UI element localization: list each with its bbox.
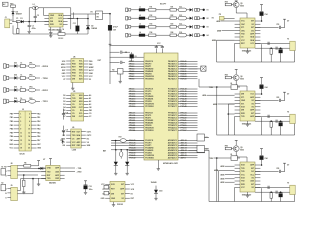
- mcu pin R2 PA1: [178, 63, 198, 65]
- mcu pin L28 PG3: [129, 147, 145, 149]
- feed wires U9: [225, 165, 235, 167]
- svg-text:A1: A1: [89, 97, 91, 100]
- mcu pin R30 AD5: [178, 152, 198, 154]
- wire vcc rail down: [109, 14, 111, 47]
- mcu pin R26 AD1: [178, 142, 198, 144]
- svg-text:D23: D23: [14, 87, 17, 89]
- svg-text:IN-OPT: IN-OPT: [160, 4, 167, 6]
- svg-text:R23: R23: [171, 24, 174, 26]
- cap C54 electrolytic: [260, 4, 263, 6]
- svg-text:D21: D21: [14, 63, 17, 65]
- wire eleft 1: [9, 65, 15, 67]
- rail risers U9: [294, 195, 296, 202]
- mcu pin R21 PF4: [178, 122, 198, 124]
- led LED4: [25, 100, 28, 102]
- connector J10 right of mcu: [201, 66, 206, 71]
- svg-text:PA4: PA4: [37, 128, 40, 131]
- wire row 4 b: [145, 34, 149, 36]
- feed wires U6: [207, 94, 235, 96]
- svg-text:OC1: OC1: [250, 94, 254, 96]
- svg-text:→TXD0: →TXD0: [41, 78, 49, 80]
- connector J8: [11, 165, 18, 178]
- wire crystal a: [255, 115, 290, 117]
- vcc arrow U6 top: [235, 69, 238, 71]
- title block T1: [3, 2, 9, 6]
- svg-text:PW: PW: [96, 13, 99, 15]
- capacitor C6 electrolytic: [130, 55, 134, 58]
- wire output right rail: [70, 8, 72, 29]
- svg-text:10: 10: [28, 129, 30, 131]
- terminal caps row 4: [195, 34, 197, 37]
- svg-text:OP2: OP2: [29, 75, 32, 77]
- ground U9: [247, 192, 249, 194]
- resistor R54: [270, 48, 272, 54]
- mcu pin R29 AD4: [178, 149, 198, 151]
- crystal Y6: [290, 114, 295, 123]
- wire row 2 c: [156, 17, 170, 19]
- svg-text:OC1: OC1: [250, 43, 254, 45]
- wire row 1 b: [145, 9, 149, 11]
- rail U9: [217, 201, 295, 203]
- wire mcu xtal row: [112, 140, 144, 142]
- ic U9: [240, 162, 255, 192]
- ic U7 MAX485: [46, 165, 60, 180]
- mcu pin R16 PC7: [178, 105, 198, 107]
- svg-text:PB7/MISO: PB7/MISO: [145, 79, 154, 81]
- ic U6: [240, 91, 255, 121]
- vcc arrow U9 top: [235, 140, 238, 142]
- svg-text:R63: R63: [225, 74, 228, 76]
- cap C95 on wire: [255, 170, 279, 172]
- ic left low riser: [234, 187, 236, 201]
- svg-text:1k: 1k: [20, 75, 22, 77]
- junction pad row 3: [203, 26, 205, 28]
- svg-text:J9: J9: [10, 185, 12, 187]
- resistor R21: [170, 9, 176, 12]
- feed wires U5: [221, 20, 235, 22]
- header pin L9: [14, 143, 19, 145]
- svg-text:GND: GND: [241, 100, 246, 102]
- diode D24: [14, 100, 17, 103]
- svg-text:D22: D22: [14, 75, 17, 77]
- svg-text:100u: 100u: [89, 189, 93, 191]
- svg-text:J2: J2: [22, 109, 24, 111]
- jack J6 row: [3, 76, 6, 80]
- wire eright 1: [36, 65, 40, 67]
- mcu pin R32 AD7: [178, 157, 198, 159]
- svg-text:C8: C8: [66, 113, 68, 115]
- svg-text:PA1: PA1: [37, 116, 40, 119]
- mcu pin R13 PC4: [178, 98, 198, 100]
- crystal box X2: [104, 185, 109, 189]
- header pin L6: [14, 132, 19, 134]
- svg-text:C94: C94: [264, 157, 267, 160]
- svg-text:J8: J8: [10, 163, 12, 165]
- svg-text:→TXD1: →TXD1: [41, 101, 49, 103]
- mcu pin L8 PB7: [129, 78, 145, 80]
- mcu pin R14 PC5: [178, 100, 198, 102]
- resistor R12: [149, 17, 156, 20]
- rail U6: [217, 134, 295, 136]
- svg-text:PF7-17: PF7-17: [181, 130, 187, 132]
- svg-text:K2: K2: [207, 18, 209, 20]
- capacitor C8: [63, 109, 65, 114]
- junction node: [28, 21, 30, 23]
- ferrite bead FB2: [139, 17, 145, 20]
- svg-text:PA5: PA5: [37, 131, 40, 134]
- wire row2 extension: [68, 18, 88, 20]
- mcu pin R10 PC1: [178, 91, 198, 93]
- cap C55 on wire: [255, 26, 279, 28]
- svg-text:PB2: PB2: [10, 121, 13, 123]
- ground below C1: [28, 30, 30, 32]
- ic left low riser: [234, 116, 236, 135]
- svg-text:AD0: AD0: [79, 100, 83, 103]
- battery box B1: [104, 191, 109, 195]
- mcu pin L15 PD6: [129, 103, 145, 105]
- optocoupler rounded U12: [178, 34, 186, 37]
- svg-text:PD7-16: PD7-16: [129, 106, 135, 108]
- cap C96: [267, 186, 269, 189]
- wire row 4 c: [156, 34, 170, 36]
- svg-text:X2: X2: [102, 193, 104, 195]
- op IC U1 MC34063: [49, 13, 63, 27]
- jack J5 row: [3, 64, 6, 68]
- svg-text:IDC20: IDC20: [20, 153, 25, 155]
- vcc right U9: [283, 162, 286, 164]
- svg-text:Y5: Y5: [287, 39, 289, 41]
- resistor R13: [149, 26, 156, 29]
- svg-text:X2: X2: [1, 182, 3, 184]
- resistor R93: [225, 147, 231, 150]
- svg-text:470uF: 470uF: [113, 26, 118, 29]
- ic left low riser: [234, 43, 236, 62]
- svg-text:1N4148: 1N4148: [151, 181, 157, 184]
- diode D21: [14, 64, 17, 67]
- wire crystal b: [255, 191, 290, 193]
- svg-text:PB0: PB0: [89, 61, 92, 63]
- svg-text:K3: K3: [207, 27, 209, 29]
- svg-text:20: 20: [28, 148, 30, 150]
- ground reset: [119, 80, 121, 82]
- header pin L2: [14, 116, 19, 118]
- resistor R64: [270, 121, 272, 127]
- diode D2: [87, 18, 89, 20]
- resistor R23: [170, 26, 176, 29]
- ferrite bead FB4: [139, 34, 145, 37]
- svg-text:X1: X1: [102, 189, 104, 191]
- wire eleft 4: [9, 100, 15, 102]
- svg-text:C11: C11: [73, 23, 76, 25]
- capacitor C4: [59, 27, 61, 30]
- reset switch SW1: [117, 69, 123, 74]
- terminal caps row 1: [195, 8, 197, 11]
- svg-text:PB1: PB1: [10, 117, 13, 119]
- svg-text:OC1: OC1: [79, 104, 83, 106]
- svg-text:8550: 8550: [240, 6, 244, 8]
- transistor Q9: [233, 146, 239, 152]
- wire IC feed: [43, 8, 45, 16]
- mcu pin L30 PG5: [129, 152, 145, 154]
- ic U8: [110, 181, 125, 201]
- svg-text:L1: L1: [139, 7, 141, 9]
- wire row 2 a: [131, 17, 139, 19]
- svg-text:PC7-25: PC7-25: [181, 106, 187, 108]
- wire mcu to mid section: [198, 79, 200, 87]
- svg-text:TXD0: TXD0: [209, 158, 213, 160]
- vcc right U5: [283, 18, 286, 20]
- grid row 2 input connector J4: [126, 16, 128, 20]
- resistor R11: [149, 9, 156, 12]
- diode D32: [126, 150, 128, 162]
- ground symbol main: [50, 34, 52, 36]
- capacitor C5: [110, 51, 120, 53]
- svg-text:PB3: PB3: [10, 125, 13, 127]
- svg-text:2: 2: [29, 113, 30, 115]
- resistor R14: [149, 34, 156, 37]
- svg-text:13: 13: [20, 136, 22, 138]
- wire row 1 e: [199, 9, 202, 11]
- mcu pin R5 PA4: [178, 70, 198, 72]
- mcu pin R4 PA3: [178, 68, 198, 70]
- relay boxes bottom: [197, 134, 204, 141]
- capacitor C10 electrolytic: [84, 180, 87, 182]
- svg-text:Y6: Y6: [287, 112, 289, 114]
- ecap C58: [279, 50, 283, 53]
- mcu pin R6 PA5: [178, 73, 198, 75]
- svg-text:PB5: PB5: [10, 132, 13, 134]
- svg-text:PB2: PB2: [89, 64, 92, 66]
- svg-text:PE7/MISO: PE7/MISO: [145, 130, 154, 132]
- svg-text:D0: D0: [63, 95, 65, 97]
- mcu pin R23 PF6: [178, 127, 198, 129]
- mcu pin L18 PE1: [129, 115, 145, 117]
- svg-text:L298: L298: [72, 150, 76, 152]
- svg-text:L2: L2: [139, 15, 141, 17]
- diode D23: [14, 88, 17, 91]
- svg-text:RV1: RV1: [10, 4, 13, 6]
- svg-text:PB7-8: PB7-8: [129, 79, 134, 81]
- svg-text:OUT2: OUT2: [87, 135, 92, 137]
- svg-text:18: 18: [28, 144, 30, 146]
- ground R6: [23, 190, 25, 192]
- mcu pin L6 PB5: [129, 73, 145, 75]
- header pin R1: [31, 113, 36, 115]
- pin header J2: [19, 111, 31, 151]
- svg-text:AD0: AD0: [79, 78, 83, 81]
- wire row 2 d: [176, 17, 178, 19]
- svg-text:PC7/ADC7: PC7/ADC7: [168, 105, 177, 108]
- diode D33: [155, 186, 157, 190]
- capacitor C2: [34, 8, 36, 17]
- optocoupler rounded U10: [178, 17, 186, 20]
- svg-text:A3: A3: [89, 103, 91, 106]
- resistor R94: [270, 192, 272, 198]
- svg-text:AD0: AD0: [55, 170, 59, 173]
- svg-text:6: 6: [29, 121, 30, 123]
- svg-text:C10: C10: [89, 186, 92, 188]
- svg-text:J1: J1: [5, 17, 7, 19]
- ground C10: [85, 191, 87, 193]
- crystal Y4: [120, 139, 126, 143]
- svg-text:PA7: PA7: [37, 139, 40, 142]
- header pin L10: [14, 147, 19, 149]
- mcu pin L3 PB2: [129, 65, 145, 67]
- svg-text:→RXD: →RXD: [76, 171, 82, 173]
- junction U6: [62, 141, 64, 143]
- svg-text:A2: A2: [89, 100, 91, 103]
- svg-text:PB0: PB0: [10, 113, 13, 115]
- header pin R5: [31, 128, 36, 130]
- svg-text:K2: K2: [205, 148, 207, 150]
- capacitor C12 electrolytic: [108, 25, 112, 30]
- mcu pin L29 PG4: [129, 149, 145, 151]
- mcu pin L12 PD3: [129, 95, 145, 97]
- svg-text:PF7/ADC7: PF7/ADC7: [168, 129, 177, 132]
- mcu pin L22 PE5: [129, 124, 145, 126]
- svg-text:11: 11: [20, 132, 22, 134]
- svg-text:XT1: XT1: [241, 103, 244, 105]
- grid row 4 input connector J6: [126, 33, 128, 37]
- wire crystal a: [255, 186, 290, 188]
- diode D11: [190, 8, 193, 11]
- wire row 1 c: [156, 9, 170, 11]
- wire mid vert feed: [228, 113, 230, 115]
- wire eleft 3: [9, 89, 15, 91]
- svg-text:D24: D24: [14, 97, 17, 100]
- capacitor C7: [110, 61, 120, 63]
- svg-text:MISO: MISO: [61, 64, 66, 66]
- svg-text:U5: U5: [73, 91, 75, 93]
- wire main input: [12, 21, 49, 23]
- svg-text:XT2: XT2: [118, 137, 121, 139]
- wire eright 2: [36, 77, 40, 79]
- svg-text:ATMEGA16-16PI: ATMEGA16-16PI: [163, 162, 178, 165]
- ground U5: [247, 48, 249, 50]
- svg-text:OSC: OSC: [241, 30, 246, 32]
- header pin L3: [14, 120, 19, 122]
- mcu pin R24 PF7: [178, 129, 198, 131]
- svg-text:PB7: PB7: [10, 140, 13, 142]
- connector J1 (power input): [5, 19, 10, 28]
- jumper block J11: [96, 11, 103, 20]
- resistor R2 on rail: [58, 33, 65, 36]
- svg-text:R53: R53: [225, 1, 228, 3]
- mcu pin R15 PC6: [178, 103, 198, 105]
- svg-text:D1: D1: [63, 98, 65, 100]
- mcu pin L7 PB6: [129, 75, 145, 77]
- cap C57: [275, 47, 277, 50]
- terminal X1 bottom far left: [1, 169, 6, 175]
- supply arrow VCC1: [109, 43, 112, 45]
- cap C66: [267, 115, 269, 118]
- crystal Y9: [290, 185, 295, 194]
- svg-text:XT1: XT1: [50, 18, 53, 20]
- bottom rail ground: [13, 33, 88, 35]
- transistor Q5: [233, 2, 239, 8]
- svg-text:OSC: OSC: [72, 101, 77, 103]
- ecap C68: [279, 123, 283, 126]
- svg-text:→RXD1: →RXD1: [41, 90, 49, 92]
- svg-text:8: 8: [29, 125, 30, 127]
- svg-text:→TXD: →TXD: [76, 168, 82, 170]
- wire branch D5: [12, 8, 14, 22]
- svg-text:R11: R11: [150, 7, 153, 9]
- terminal caps row 2: [195, 17, 197, 20]
- svg-text:PA0: PA0: [37, 112, 40, 115]
- svg-text:OC1: OC1: [79, 73, 83, 75]
- svg-text:X1: X1: [1, 167, 3, 169]
- mcu pin R31 AD6: [178, 154, 198, 156]
- svg-text:R2 0.3: R2 0.3: [58, 38, 63, 40]
- svg-text:D3: D3: [63, 104, 65, 106]
- wire crystal a: [255, 42, 290, 44]
- resistor R31: [20, 65, 25, 68]
- vcc right U6: [283, 91, 286, 93]
- svg-text:1N4007: 1N4007: [16, 13, 22, 16]
- ic U5: [71, 93, 84, 121]
- mcu pin L9 PD0: [129, 88, 145, 90]
- mcu pin L4 PB3: [129, 68, 145, 70]
- diode D1: [21, 20, 24, 23]
- capacitor C3: [67, 21, 69, 23]
- svg-text:C54: C54: [264, 13, 267, 16]
- mcu pin L31 PG6: [129, 154, 145, 156]
- svg-text:R3: R3: [112, 69, 114, 71]
- mcu pin R7 PA6: [178, 75, 198, 77]
- wire 5V to rail: [103, 13, 111, 15]
- svg-text:XT1: XT1: [241, 97, 244, 99]
- svg-text:8550: 8550: [240, 79, 244, 81]
- svg-text:PB6: PB6: [10, 136, 13, 138]
- svg-text:OUT1: OUT1: [87, 131, 92, 133]
- svg-text:VC2: VC2: [101, 184, 104, 186]
- junction pad row 2: [203, 17, 205, 19]
- wire crystal b: [255, 47, 290, 49]
- resistor R7 vertical: [120, 152, 123, 157]
- capacitor C11 electrolytic: [77, 18, 79, 20]
- grid row 3 input connector J5: [126, 25, 128, 29]
- wire J8 to U7: [17, 167, 45, 169]
- fuse F1: [16, 21, 20, 23]
- svg-text:1k: 1k: [20, 63, 22, 65]
- terminal X2 bottom far left: [1, 184, 6, 190]
- header pin R7: [31, 136, 36, 138]
- mcu pin R25 AD0: [178, 140, 198, 142]
- svg-text:8550: 8550: [240, 150, 244, 152]
- svg-text:PA6: PA6: [37, 135, 40, 138]
- header pin L8: [14, 139, 19, 141]
- svg-text:C4: C4: [62, 28, 64, 31]
- header pin L5: [14, 128, 19, 130]
- capacitor C1 electrolytic: [28, 22, 30, 26]
- ground U6: [247, 121, 249, 123]
- svg-text:OC1: OC1: [179, 6, 182, 8]
- wire Q5 emitter: [235, 8, 237, 14]
- svg-text:PG7-32: PG7-32: [129, 158, 135, 160]
- svg-text:MAX485: MAX485: [49, 182, 56, 185]
- svg-text:15: 15: [20, 140, 22, 142]
- svg-text:DS1302: DS1302: [117, 204, 123, 206]
- svg-text:C95: C95: [276, 168, 279, 170]
- diode D5: [12, 11, 15, 13]
- svg-text:1: 1: [20, 113, 21, 115]
- led LED3: [25, 89, 28, 91]
- mcu pin L27 PG2: [111, 144, 144, 146]
- svg-text:R22: R22: [171, 15, 174, 17]
- svg-text:PG7/MISO: PG7/MISO: [145, 158, 154, 160]
- svg-text:14: 14: [28, 135, 30, 138]
